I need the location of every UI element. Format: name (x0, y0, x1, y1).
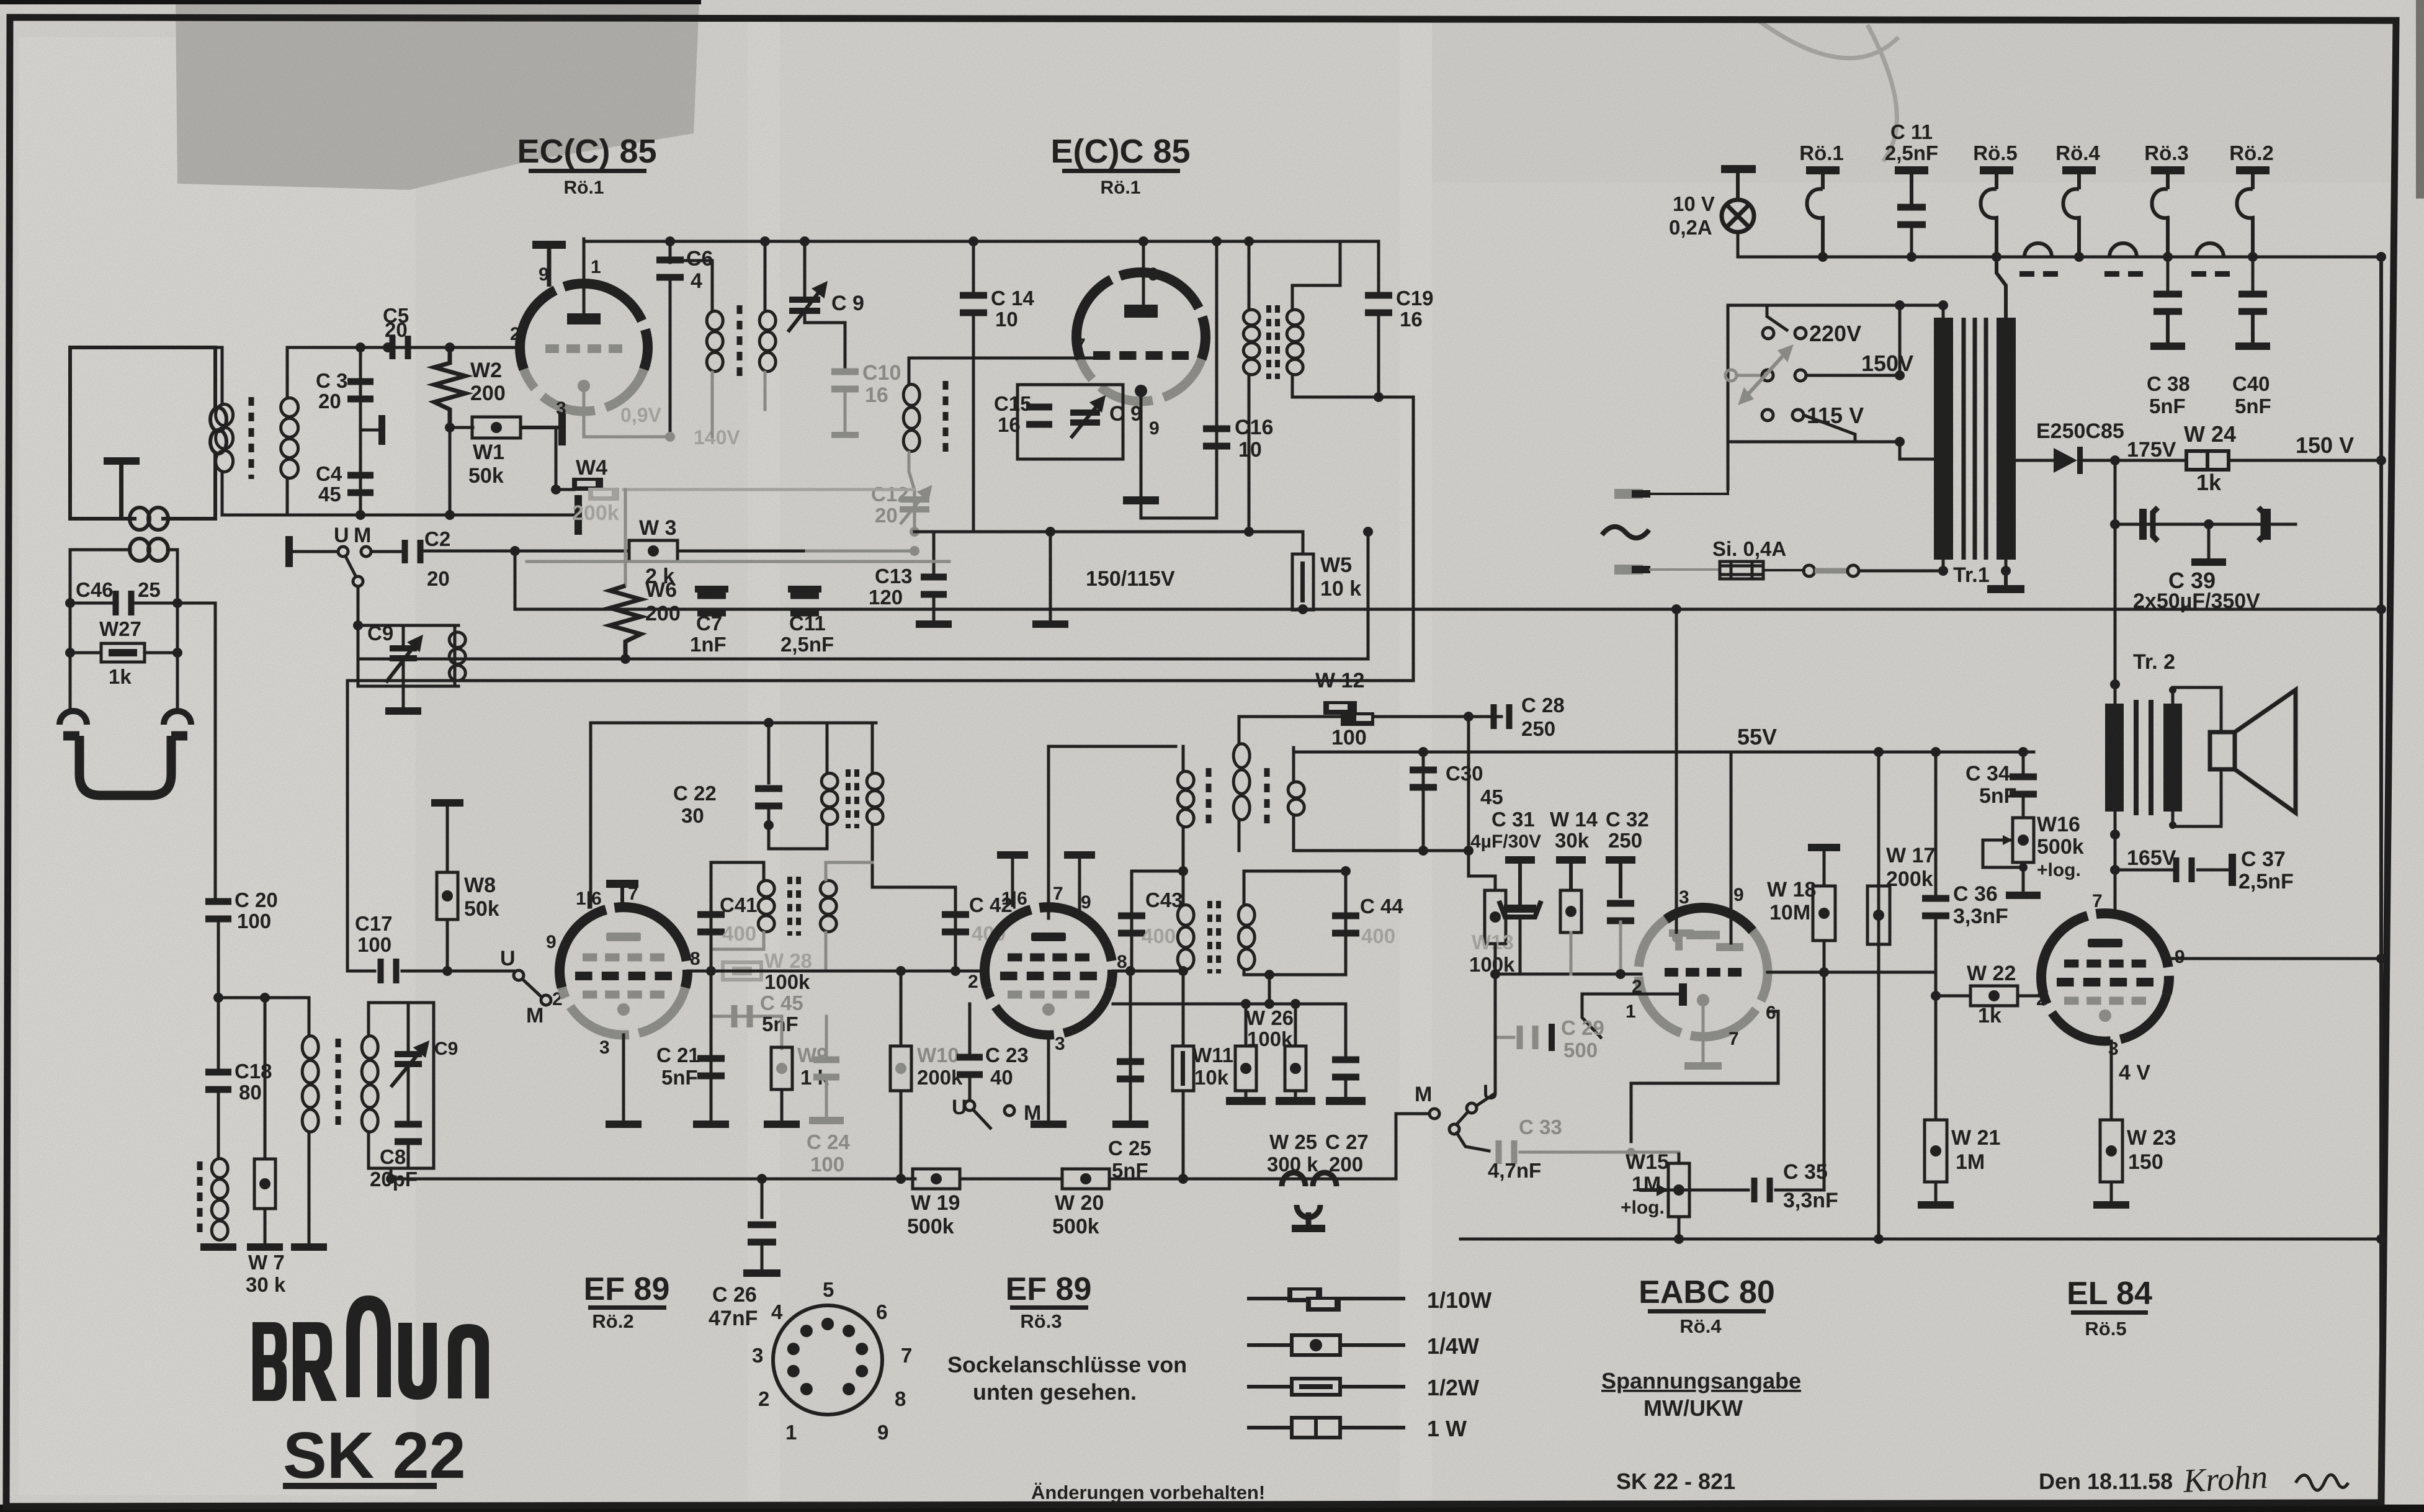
wire C16 to cathode bar (1141, 504, 1217, 518)
junction right rail 742 (2376, 455, 2386, 465)
coil IF2 mid (1233, 744, 1250, 820)
wire W11 column (1182, 971, 1185, 1045)
rail IF1 top (591, 722, 876, 725)
wire tank top (358, 624, 458, 627)
heater tap T-bar Ro.4 (2062, 166, 2096, 189)
wire right rail seg (2379, 460, 2383, 609)
rail 55V left bend (1730, 752, 1733, 943)
core IF1 lower (790, 877, 798, 936)
switch1 M contact (361, 547, 371, 557)
wire W13 jog (1469, 851, 1495, 890)
wire T1 left top (670, 261, 712, 310)
capacitor C33 gray (1496, 1140, 1518, 1164)
resistor W12 (1323, 701, 1374, 726)
wire osc coil right (454, 625, 457, 686)
coil T1 right (759, 311, 776, 371)
wire ant sec top (286, 347, 289, 397)
wire pin7 gray (924, 357, 1093, 360)
resistor W7 (254, 1159, 275, 1209)
resistor W19 (913, 1169, 960, 1189)
wire hop 1 (2024, 243, 2052, 257)
hook left lead (60, 711, 87, 725)
wire grid line 1565 (347, 970, 375, 973)
AVC bus 2 (960, 1178, 1062, 1181)
capacitor C24 gray (813, 1057, 839, 1081)
junction W4 left (551, 485, 561, 494)
wire IF2 mid bottom (1238, 821, 1241, 851)
wire C20 to junction (217, 919, 220, 998)
selector contact mid (1762, 370, 1773, 381)
wire Tr2 bottom lead (2114, 812, 2117, 870)
wire C9a top (803, 241, 807, 297)
junction W2 bottom (445, 510, 455, 520)
wire IF2 ul bottom (1182, 828, 1185, 871)
switch3 M contact (1004, 1106, 1014, 1116)
junction Tr1 top (1938, 300, 1948, 310)
junction pin3 gray (1672, 934, 1681, 942)
coil antenna primary (216, 405, 233, 472)
switch2 U contact (514, 970, 524, 980)
C37 end bar (2196, 854, 2236, 886)
junction C30 bottom (1418, 846, 1428, 856)
C11 chassis bar (788, 586, 821, 597)
wire IF2 primary top (1049, 745, 1176, 748)
gray tape patch top-left (176, 0, 699, 190)
wire W2W1 node down (449, 427, 452, 515)
wire C44 column (1344, 871, 1348, 975)
right rail (2379, 257, 2383, 1503)
coil IF2 upper right (1288, 782, 1304, 815)
wire ant primary bottom (221, 473, 224, 515)
wire pin8 bus (711, 970, 984, 973)
W15 arrow (1639, 1184, 1668, 1196)
wire C45 line gray (711, 1015, 782, 1018)
mains switch link gray (1815, 568, 1848, 574)
junction C46 right (172, 598, 182, 608)
junction gnd bus right (2376, 1234, 2386, 1244)
wire C29 line gray (1495, 1036, 1514, 1039)
wire pin8 Ro.2 (688, 970, 711, 973)
selector contact c (1762, 409, 1773, 421)
wire LW coil bottom (308, 1133, 311, 1243)
wire W5 bottom (1302, 609, 1305, 610)
ground C13 (916, 620, 952, 628)
junction heater bus Ro.3 (2163, 252, 2173, 262)
junction C9a rail (800, 236, 810, 246)
capacitor C23 (957, 1054, 983, 1078)
wire W4 rail right (624, 488, 915, 491)
wire tank top (1017, 383, 1123, 387)
junction W17 top (1874, 747, 1884, 757)
wire M to C2 (371, 550, 405, 553)
wire hop dashes 1 (2019, 271, 2058, 277)
W18 T-bar (1808, 844, 1840, 886)
heater tap T-bar Ro.2 (2236, 166, 2270, 189)
wire C36 to W22 (1934, 917, 1938, 996)
switch4 U contact (1467, 1103, 1477, 1113)
Ro.3 g bar 2 (1064, 851, 1095, 912)
signature squiggle (2296, 1475, 2348, 1490)
wire tank bottom (358, 685, 458, 688)
core T2 (1269, 305, 1277, 379)
ground bus (1460, 1238, 2381, 1241)
mains squiggle (1602, 527, 1649, 538)
resistor W16 (2013, 818, 2034, 862)
wire L2 to W3 (421, 550, 629, 553)
junction W10 AVC (896, 1174, 906, 1184)
wire C22 stem (767, 723, 771, 783)
wire W12 line (1239, 715, 1501, 718)
wire AVC left end (390, 1168, 393, 1179)
resistor W20 (1062, 1169, 1109, 1189)
capacitor C5 (390, 336, 411, 359)
capacitor C11 mid (790, 593, 819, 617)
capacitor C43 (1118, 913, 1145, 937)
wire ant sec bottom (286, 479, 289, 515)
junction W6 R2 (620, 654, 630, 664)
wire C27 column (1344, 1004, 1348, 1055)
frame antenna loop (63, 736, 187, 795)
transformer Tr.2 primary bar (2105, 704, 2124, 812)
C29 end bar (1549, 1024, 1555, 1051)
ground W7 (247, 1243, 283, 1251)
wire C42 top row (872, 886, 955, 889)
core T1 (737, 305, 743, 377)
wire W15 top (1678, 1154, 1681, 1163)
switch4 M contact (1429, 1109, 1439, 1119)
rail R3 (347, 679, 1413, 682)
wire IF2 ul top (1182, 746, 1185, 771)
junction C44 top (1341, 866, 1351, 876)
antenna T element (104, 457, 140, 519)
trimmer C9b plates (1070, 409, 1100, 426)
wire EL84 cathode (2110, 1041, 2113, 1120)
capacitor C17 (378, 959, 400, 983)
junction C19 bottom (1374, 392, 1384, 402)
C27 bottom bar (1326, 1078, 1366, 1105)
wire W1 node down (555, 427, 558, 490)
Ro.3 g bar 1 (997, 851, 1028, 907)
junction W5 R1 (1298, 604, 1308, 614)
coil IF1 upper left (821, 773, 838, 825)
W8 T-bar (431, 799, 463, 874)
wire C24 bottom gray (825, 1082, 828, 1117)
wire W8 to grid line (446, 919, 449, 971)
junction C5 left (383, 342, 393, 352)
wire W1 left (450, 426, 473, 429)
transformer Tr.1 core lines (1964, 318, 1986, 560)
ground MW coil (200, 1243, 236, 1251)
tube Ro1a pin9 T-bar (532, 241, 566, 287)
capacitor C3 (347, 378, 373, 403)
tube EF89 Ro.2 (562, 988, 686, 1035)
wire W13 bottom (1494, 944, 1497, 974)
ground W9 (764, 1121, 800, 1128)
wire C8 bottom (407, 1143, 410, 1168)
wire Ro.4 pin3 column (1675, 609, 1678, 938)
junction heater bus Ro.2 (2248, 252, 2258, 262)
capacitor C36 (1922, 895, 1949, 919)
wire loop right (176, 561, 179, 711)
heater tap T-bar Ro.3 (2151, 166, 2185, 189)
wire det drop (1268, 975, 1271, 1004)
resistor W2 zigzag (434, 347, 465, 427)
junction C30 top (1418, 747, 1428, 757)
selector contact 220V (1795, 328, 1806, 339)
wire C34 to W16 (2022, 795, 2025, 818)
wire W3 right gray (807, 550, 915, 553)
wire Tr2 top lead (2114, 684, 2117, 704)
capacitor C20 (205, 898, 231, 923)
junction W26 top (1241, 999, 1251, 1009)
wire C11 psu down (1910, 225, 1913, 257)
wire W27 right (145, 651, 177, 655)
core IF2 upper b (1264, 768, 1270, 830)
resistor W3 (629, 540, 678, 561)
lamp T-bar (1721, 165, 1756, 200)
capacitor C28 (1491, 704, 1513, 729)
junction gnd bus W17 (1874, 1234, 1884, 1244)
switch4 pivot (1449, 1124, 1459, 1134)
wire R1 left bend (514, 551, 517, 609)
wire bottom tap to Tr1 (1900, 458, 1934, 461)
wire T1 right bottom (764, 372, 767, 409)
rail 55V (1294, 751, 2034, 754)
wire Tr1 sec top to bus (1997, 257, 2006, 318)
Ro.2 top cap bar (606, 880, 638, 907)
resistor W8 (437, 872, 458, 919)
wire W14 bottom (1570, 933, 1573, 974)
wire Tr1 prim bottom (1942, 560, 1945, 571)
wire speaker top (2173, 687, 2221, 732)
transformer Tr.2 core lines (2136, 700, 2151, 815)
wire W28 right (761, 970, 826, 973)
coil T1 left (707, 311, 723, 371)
wire pin8 det (1768, 971, 1936, 974)
resistor W26 (1235, 1046, 1256, 1091)
junction W1 left (445, 423, 455, 432)
junction W3 C14col (910, 546, 919, 556)
wire C14 drop (972, 314, 975, 532)
wire C25 column (1129, 971, 1132, 1121)
resistor W1 (472, 417, 521, 438)
wire IF1 ur bottom (871, 825, 874, 887)
wire pin6 loop (1631, 1011, 1778, 1142)
wire C17 to switch (402, 970, 514, 973)
wire C3C4 column (359, 347, 362, 515)
MW tank box (369, 1003, 434, 1168)
wire hop dashes 2 (2104, 271, 2143, 277)
junction bottom rail C3C4 (356, 510, 365, 520)
wire det bus (1495, 973, 1641, 976)
wire switch4 out (1457, 1133, 1489, 1151)
wire C18 to coil (217, 1091, 220, 1158)
C26 bottom bar (743, 1243, 780, 1277)
Tr1 sec ground (1987, 571, 2024, 593)
wire coupling to right (168, 550, 177, 603)
heater tap T-bar Ro.5 (1980, 166, 2013, 189)
junction C26 bus (757, 1174, 767, 1184)
wire Ro.4 cathode gray (1702, 1006, 1705, 1062)
junction Tr1 sec bottom (2001, 566, 2011, 576)
resistor W27 inner (109, 649, 137, 656)
capacitor C15 (1026, 404, 1052, 428)
speaker (2210, 690, 2296, 813)
switch3 lever (973, 1109, 991, 1129)
coil MW antenna (212, 1158, 228, 1240)
junction W27 left (65, 648, 75, 658)
resistor W28 gray (723, 962, 761, 980)
wire W17 column (1877, 752, 1881, 1239)
wire C23 bottom (968, 1076, 972, 1099)
coil osc Ro1b (903, 385, 919, 452)
junction W22 left (1931, 991, 1941, 1001)
wire W5 top (1302, 532, 1305, 554)
wire pin8 Ro.3 (1113, 970, 1183, 973)
mains plug lower (1614, 565, 1650, 575)
hook right lead (164, 711, 191, 725)
tube Ro1a plate bar (567, 313, 601, 323)
wire switch to Tr1 (1859, 570, 1943, 573)
junction spk top (2169, 686, 2176, 694)
junction bottom tap (1895, 437, 1905, 447)
wire cathode Ro1b (1140, 397, 1143, 496)
wire coupling to left (70, 550, 130, 603)
wire diode to W24 (2083, 459, 2186, 462)
capacitor C8 (395, 1121, 422, 1145)
wire EL84 pin9 (2170, 957, 2381, 960)
wire W26 top (1245, 1004, 1248, 1046)
wire W13 column top (1467, 717, 1470, 851)
switch3 U contact (965, 1101, 975, 1111)
wire W27 right drop (176, 603, 179, 653)
capacitor C10 (gray) (831, 369, 859, 393)
switch1 lever (345, 555, 356, 577)
coil osc MW (449, 632, 465, 681)
wire IF1 ul bottom (769, 825, 827, 849)
ground C24 gray (809, 1117, 844, 1124)
antenna coupling coil upper (130, 508, 168, 530)
selector top diag (1767, 305, 1787, 330)
capacitor C41 (697, 911, 725, 936)
wire W24 to right rail (2229, 459, 2381, 462)
ground W21 (1918, 1201, 1954, 1209)
legend 1/10W (1247, 1287, 1405, 1312)
W16 arrow (2003, 835, 2013, 845)
junction Tr2 bottom (2110, 830, 2120, 839)
logo BRAUN letter N (448, 1324, 489, 1398)
wire W10 bottom (900, 1091, 903, 1179)
logo BRAUN letter U (398, 1323, 437, 1400)
capacitor C6 (656, 257, 684, 281)
wire mains lower (1650, 568, 1720, 571)
wire C35 right (1776, 1189, 1824, 1192)
junction det drop (1264, 999, 1274, 1009)
wire W18 det column (1823, 972, 1826, 1190)
wire ratio line (1294, 849, 1469, 852)
junction 175V (2110, 455, 2120, 465)
wire 115V tap (1804, 415, 1855, 442)
junction C22 bottom (764, 820, 774, 830)
wire W22 line (1936, 995, 1970, 998)
capacitor C16 (1203, 426, 1230, 450)
wire IF2 ur bottom (1292, 816, 1295, 851)
paper lighter left zone (19, 37, 416, 1495)
wire C21 column (710, 971, 713, 1121)
crease top right (1756, 19, 1899, 161)
mains switch contact 1 (1804, 565, 1815, 576)
wire C14 top (972, 241, 975, 293)
trimmer C9b arrow (1071, 398, 1103, 438)
paper fold line 1 (748, 21, 780, 1504)
capacitor C45 gray (731, 1005, 753, 1027)
resistor W27 (101, 643, 145, 662)
paper shade top right (1427, 21, 2395, 182)
scan black edge bottom (0, 1505, 2424, 1512)
junction pin6 rail (1138, 236, 1148, 246)
wire W27 left (70, 651, 101, 655)
pilot lamp (1722, 200, 1754, 232)
switch1 T-bar (285, 536, 338, 567)
wire speaker bottom (2173, 769, 2221, 826)
wire C38 drop (2167, 257, 2170, 292)
rail R3 left bend (346, 681, 349, 971)
wire W4 rail left (556, 488, 574, 491)
wire C9d stem (407, 1003, 410, 1051)
legend 1/2W (1247, 1379, 1405, 1395)
junction W11 bus (1178, 1174, 1188, 1184)
capacitor C37 (2173, 857, 2195, 882)
capacitor C13 (921, 574, 947, 598)
wire W11 bottom (1182, 1091, 1185, 1179)
switch4 lever (1457, 1112, 1468, 1124)
junction W16-C34 node (2019, 863, 2028, 872)
fuse Si 0.4A (1720, 561, 1763, 579)
wire T2 right bottom (1292, 375, 1379, 397)
ground osc tank (385, 707, 421, 715)
C31 T-bar (1505, 856, 1535, 905)
resistor W13 (1485, 890, 1506, 944)
junction pin3 R1 (1671, 604, 1681, 614)
wire C9a bottom (805, 314, 845, 367)
wire Ro.2 cathode (622, 1035, 625, 1121)
ground C21 (693, 1121, 729, 1128)
junction 55V C36 (1931, 747, 1941, 757)
wire W9 bottom (780, 1089, 784, 1121)
junction 165V (2110, 865, 2120, 875)
coil IF1 upper right (867, 773, 883, 825)
tap stub (360, 415, 385, 445)
junction W10 bus (896, 1174, 906, 1184)
junction tank top (353, 620, 363, 630)
trimmer C9a arrow (788, 284, 825, 332)
wire W9 column gray (780, 1016, 784, 1049)
tube EF89 Ro.3 (987, 988, 1111, 1035)
junction C11 psu bus (1907, 252, 1916, 262)
wire C41 column (710, 862, 713, 971)
C39 tap bar (2191, 558, 2226, 566)
wire pin1 bend (1582, 994, 1601, 1037)
wire T2 left top (1248, 241, 1251, 309)
trimmer C12 plates gray (900, 496, 929, 512)
scan dark edge right (2416, 0, 2424, 199)
capacitor C35 (1751, 1178, 1773, 1202)
core osc Ro1b (943, 381, 949, 455)
wire C39 center tap (2207, 524, 2211, 558)
wire C31 bottom (1519, 917, 1522, 974)
transformer Tr.1 primary bar (1934, 318, 1953, 560)
wire W25 top (1294, 1004, 1297, 1046)
